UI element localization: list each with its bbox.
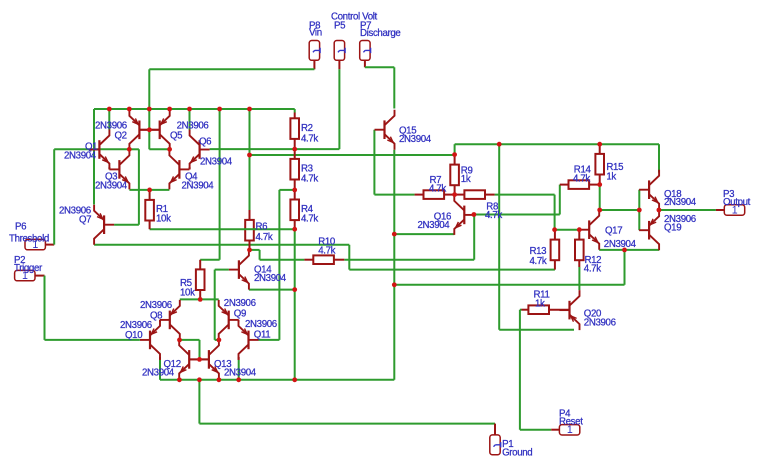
wire ff link down [348, 245, 350, 270]
wire up to Q16 base [473, 215, 475, 260]
junction gnd Q13 emitter [217, 377, 222, 382]
wire [244, 228, 256, 230]
svg-text:Q7: Q7 [79, 215, 91, 226]
svg-text:2N3904: 2N3904 [664, 197, 697, 208]
wire threshold up [53, 149, 55, 244]
resistor R9 1k [450, 165, 459, 186]
svg-text:2N3904: 2N3904 [182, 180, 215, 191]
transistor Q19 2N3906 [639, 210, 659, 250]
wire down to Q7 base [138, 149, 140, 224]
wire Q17 emitter Q19 collector [599, 249, 659, 251]
junction Q8 Q12 collectors [177, 338, 182, 343]
wire Q18 Q19 bases [638, 190, 640, 231]
wire jog to Q9 collector [215, 339, 219, 341]
svg-text:1k: 1k [535, 298, 545, 309]
transistor Q16 2N3904 [454, 195, 474, 235]
junction V+ bus x189 [187, 107, 192, 112]
junction gnd P1 [197, 377, 202, 382]
wire jog down [259, 250, 261, 260]
transistor Q3 2N3904 [109, 149, 129, 189]
wire Q11 emitter to Q9 base [238, 320, 240, 322]
transistor Q4 2N3904 [169, 149, 189, 189]
wire R14 left up [559, 185, 561, 215]
wire driver bases [600, 209, 640, 211]
wire V+ to Q1 collector [108, 109, 110, 130]
wire ground bus [179, 379, 394, 381]
svg-text:Q2: Q2 [115, 130, 127, 141]
junction gnd Q12 emitter [177, 377, 182, 382]
junction R15 top [597, 142, 602, 147]
junction R9 top [452, 152, 457, 157]
junction Q5 coll Q4 coll [167, 147, 172, 152]
resistor R12 4.7k [575, 240, 584, 261]
wire R1 bottom to R4 bottom [150, 228, 295, 230]
svg-text:2N3904: 2N3904 [64, 151, 97, 162]
pin P2 Trigger [15, 270, 35, 282]
wire V+ to Q7 emitter [93, 109, 95, 205]
wire reset down [519, 310, 521, 430]
wire to Q16 base [474, 214, 560, 216]
transistor Q9 2N3906 [219, 300, 239, 340]
pin P4 Reset [559, 424, 579, 436]
resistor R15 1k [595, 154, 604, 175]
junction R14 R15 [597, 182, 602, 187]
pin P3 Output [724, 204, 744, 216]
transistor Q8 2N3906 [160, 300, 180, 340]
svg-text:4.7k: 4.7k [429, 184, 446, 195]
svg-text:4.7k: 4.7k [573, 173, 590, 184]
wire Q8 coll jog [179, 339, 199, 341]
R8 leads [455, 194, 465, 196]
svg-text:Trigger: Trigger [14, 263, 43, 274]
junction Q12 Q13 bases [197, 357, 202, 362]
R12 leads [578, 230, 580, 240]
svg-text:Q5: Q5 [170, 130, 182, 141]
transistor Q13 2N3904 [199, 339, 219, 379]
resistor R13 4.7k [551, 240, 560, 261]
junction ground R4 [292, 377, 297, 382]
wire Q15 base up [373, 130, 375, 195]
wire Q14 emitter [249, 289, 295, 291]
wire Q10 collector down [159, 360, 161, 380]
wire V+ up [454, 144, 456, 155]
wire P7 to Q15 collector [393, 67, 395, 108]
resistor R4 4.7k [290, 200, 299, 221]
wire R4 bottom to ground [294, 229, 296, 380]
transistor Q18 2N3904 [639, 170, 659, 210]
svg-text:Vin: Vin [309, 28, 322, 39]
R5 leads [199, 260, 201, 270]
R14 leads [560, 184, 569, 186]
wire Q11 collector down [238, 360, 240, 380]
wire gnd to P1 a [198, 380, 200, 424]
junction Q16 base [472, 212, 477, 217]
wire reset to P4 [520, 429, 551, 431]
junction R5 bottom [198, 297, 203, 302]
wire V+ to R6 [249, 109, 251, 210]
svg-text:2N3904: 2N3904 [399, 134, 432, 145]
wire trigger to Q10 base [45, 339, 140, 341]
svg-text:4.7k: 4.7k [301, 214, 318, 225]
wire to Q7 base corner [129, 148, 139, 150]
R9 leads [454, 155, 456, 165]
wire threshold to Q1 base [54, 148, 129, 150]
R13 leads [554, 230, 556, 240]
svg-text:2N3904: 2N3904 [95, 180, 128, 191]
wire V+ to Q20 drop [498, 144, 500, 330]
wire Q1 emitter to Q3 base [108, 167, 110, 169]
R4 leads [294, 190, 296, 200]
junction V+ bus x169 [167, 107, 172, 112]
wire to Q12 Q13 bases [199, 340, 201, 360]
wire V+ to Q2 Q5 bases [148, 109, 150, 149]
svg-text:1k: 1k [461, 174, 471, 185]
wire Q7 collector [94, 244, 349, 246]
wire R15 bottom down [599, 185, 601, 210]
svg-text:Output: Output [723, 197, 751, 208]
junction Q2 coll Q3 coll [127, 147, 132, 152]
pin P1 Ground [490, 435, 501, 455]
wire V+ to R2 [294, 109, 296, 113]
wire divider node [279, 189, 294, 191]
svg-text:2N3906: 2N3906 [584, 317, 616, 328]
junction V+ bus x219 [217, 107, 222, 112]
junction R4 bottom [292, 227, 297, 232]
junction Q15 Q16 emitters [392, 232, 397, 237]
junction R1 top [147, 188, 152, 193]
resistor R6 4.7k [245, 220, 254, 241]
svg-text:Q17: Q17 [605, 226, 622, 237]
R11 leads [522, 309, 529, 311]
svg-text:Q11: Q11 [254, 329, 271, 340]
svg-text:4.7k: 4.7k [318, 245, 335, 256]
junction gnd Q11 collector [236, 377, 241, 382]
junction gnd link [392, 282, 397, 287]
resistor R14 4.7k [569, 180, 590, 189]
wire R6 bottom jog [250, 249, 260, 251]
resistor R8 4.7k [464, 190, 485, 199]
svg-text:P6: P6 [15, 221, 26, 232]
resistor R11 1k [528, 305, 549, 314]
svg-text:10k: 10k [180, 287, 195, 298]
svg-text:P5: P5 [334, 21, 345, 32]
resistor R5 10k [196, 269, 205, 290]
junction V+ mid [247, 153, 252, 158]
svg-text:4.7k: 4.7k [301, 133, 318, 144]
svg-text:10k: 10k [156, 213, 171, 224]
wire Q11 collector lead [238, 357, 240, 360]
svg-text:Q9: Q9 [234, 309, 246, 320]
wire R10 right [344, 259, 474, 261]
wire R12 to Q20 [578, 267, 580, 290]
svg-text:1k: 1k [606, 171, 616, 182]
svg-text:2N3904: 2N3904 [604, 239, 637, 250]
transistor Q10 2N3906 [140, 320, 160, 360]
wire control volt [210, 148, 340, 150]
wire V+ bus [94, 108, 295, 110]
junction output [657, 208, 662, 213]
svg-text:Q6: Q6 [199, 136, 211, 147]
wire V+ right [455, 143, 659, 145]
resistor R2 4.7k [290, 118, 299, 139]
svg-text:Reset: Reset [559, 417, 583, 428]
wire gnd to P1 b [199, 423, 495, 425]
transistor Q1 2N3904 [89, 130, 109, 170]
junction Q9 Q13 collectors [217, 338, 222, 343]
R1 leads [149, 190, 151, 200]
junction R6 bottom Q14 collector [247, 248, 252, 253]
wire P7 b [365, 66, 394, 68]
R10 leads [304, 259, 313, 261]
wire Q10 collector lead [159, 357, 161, 360]
junction gnd Q19 collector [622, 248, 627, 253]
wire R7 left [374, 194, 414, 196]
wire Q16 emitter [394, 233, 454, 235]
pin P7 Discharge [360, 41, 371, 61]
svg-text:4.7k: 4.7k [301, 173, 318, 184]
transistor Q5 2N3906 [150, 110, 170, 150]
junction R3 R4 [292, 188, 297, 193]
R2 leads [294, 113, 296, 119]
wire P5 control [338, 69, 340, 149]
svg-text:2N3904: 2N3904 [200, 156, 233, 167]
resistor R3 4.7k [290, 159, 299, 180]
transistor Q6 2N3904 [190, 130, 210, 170]
wire Q20 emitter [499, 329, 574, 331]
svg-text:4.7k: 4.7k [485, 210, 502, 221]
transistor Q12 2N3904 [179, 339, 199, 379]
svg-text:2N3904: 2N3904 [254, 273, 287, 284]
transistor Q2 2N3906 [129, 110, 149, 150]
wire V+ to Q6 collector [189, 109, 191, 130]
wire output [659, 209, 716, 211]
wire Q2 Q5 base link [139, 129, 159, 131]
svg-text:R2: R2 [301, 123, 313, 134]
wire Q7 base [114, 224, 139, 226]
wire R10 left [260, 259, 305, 261]
svg-text:Q10: Q10 [125, 330, 143, 341]
transistor Q11 2N3906 [239, 320, 259, 360]
wire Q14 base [215, 269, 229, 271]
junction Q17 collector [597, 208, 602, 213]
wire gnd link up [624, 250, 626, 285]
svg-text:2N3904: 2N3904 [418, 220, 451, 231]
svg-text:4.7k: 4.7k [584, 264, 601, 275]
junction V+ bus x109 [107, 107, 112, 112]
wire R11 left [520, 309, 522, 311]
svg-text:2N3906: 2N3906 [140, 300, 172, 311]
wire R5 top [200, 259, 219, 261]
wire gnd up to Q15 emitter [393, 150, 395, 380]
junction R12 top Q17 base [577, 227, 582, 232]
svg-text:Q19: Q19 [664, 223, 681, 234]
junction R2 bottom control volt [292, 147, 297, 152]
junction R13 top [552, 227, 557, 232]
svg-text:4.7k: 4.7k [256, 232, 273, 243]
wire gnd left end [160, 379, 179, 381]
junction Q18 Q19 bases [637, 208, 642, 213]
wire Q8 Q9 emitters [180, 298, 219, 300]
svg-text:4.7k: 4.7k [530, 256, 547, 267]
resistor R1 10k [145, 200, 154, 221]
svg-text:2N3904: 2N3904 [224, 368, 257, 379]
junction V+ bus x129 [127, 107, 132, 112]
pin P5 Control Volt [334, 41, 345, 61]
resistor R7 4.7k [424, 190, 445, 199]
junction Q14 emitter [292, 287, 297, 292]
wire R8 down [554, 195, 556, 230]
wire divider to Q11 base [278, 190, 280, 340]
svg-text:R6: R6 [256, 221, 268, 232]
transistor Q20 2N3906 [560, 290, 580, 330]
wire gnd link right [394, 284, 624, 286]
R6 leads [249, 210, 251, 220]
wire ff node [555, 229, 580, 231]
wire R8 right [495, 194, 555, 196]
transistor Q14 2N3904 [229, 250, 249, 290]
wire V+ to Q18 collector [658, 144, 660, 172]
resistor R10 4.7k [313, 255, 334, 264]
wire Q6 emitter to Q4 base [189, 167, 191, 169]
svg-text:2N3904: 2N3904 [142, 368, 175, 379]
svg-text:Ground: Ground [502, 447, 532, 458]
wire Q3 Q4 emitters [129, 189, 169, 191]
transistor Q7 2N3906 [94, 205, 114, 245]
pin P8 Vin [309, 41, 320, 61]
junction Q2 Q5 bases [147, 127, 152, 132]
wire V+ mid [250, 154, 455, 156]
wire trigger down [44, 276, 46, 340]
wire Q10 emitter to Q8 base [159, 320, 161, 322]
pin P6 Threshold [25, 239, 45, 251]
wire V+ to R5 [219, 109, 221, 260]
junction V+ bus x249 [247, 107, 252, 112]
wire Q12 Q13 base link [189, 358, 209, 360]
junction V+ Q20 drop [497, 142, 502, 147]
wire P8 to Vin drop [149, 68, 314, 70]
transistor Q15 2N3904 [375, 110, 395, 150]
transistor Q17 2N3904 [579, 210, 599, 250]
R7 leads [415, 194, 424, 196]
wire Vin drop [148, 69, 150, 109]
svg-text:Discharge: Discharge [360, 28, 400, 39]
wire Q14 base down [214, 270, 216, 340]
svg-text:Threshold: Threshold [9, 233, 49, 244]
junction R7 R8 R9 Q16 collector [452, 192, 457, 197]
R15 leads [599, 144, 601, 154]
R3 leads [294, 149, 296, 159]
wire to R13 bottom [349, 269, 555, 271]
wire Q11 base [259, 339, 280, 341]
wire base jog [149, 148, 169, 150]
junction V+ bus x149 [147, 107, 152, 112]
